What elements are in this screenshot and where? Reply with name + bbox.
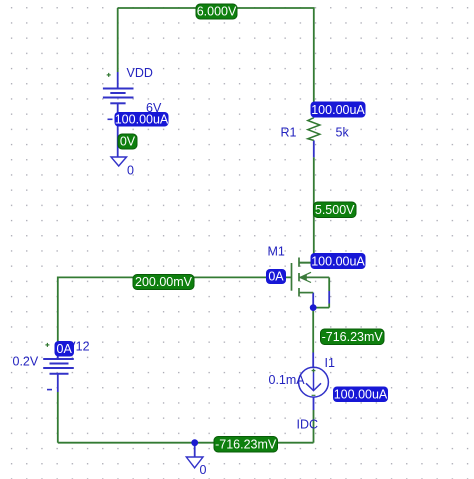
svg-text:100.00uA: 100.00uA: [311, 254, 365, 268]
svg-text:-716.23mV: -716.23mV: [322, 330, 384, 344]
svg-text:200.00mV: 200.00mV: [135, 275, 193, 289]
svg-text:0A: 0A: [57, 342, 73, 356]
svg-text:I1: I1: [325, 356, 335, 370]
svg-text:100.00uA: 100.00uA: [311, 103, 365, 117]
svg-text:5k: 5k: [336, 126, 350, 140]
svg-text:100.00uA: 100.00uA: [115, 113, 169, 127]
svg-text:5.500V: 5.500V: [315, 203, 355, 217]
svg-text:0.2V: 0.2V: [13, 355, 39, 369]
svg-text:0.1mA: 0.1mA: [269, 373, 306, 387]
svg-text:IDC: IDC: [297, 418, 319, 432]
svg-text:100.00uA: 100.00uA: [334, 388, 388, 402]
svg-text:VDD: VDD: [127, 66, 153, 80]
svg-text:-716.23mV: -716.23mV: [215, 438, 277, 452]
svg-text:6.000V: 6.000V: [197, 5, 237, 19]
svg-text:0: 0: [127, 164, 134, 178]
svg-text:0V: 0V: [120, 135, 136, 149]
svg-text:R1: R1: [281, 126, 297, 140]
svg-text:0: 0: [200, 463, 207, 477]
svg-text:0A: 0A: [268, 270, 284, 284]
svg-text:M1: M1: [268, 245, 285, 259]
